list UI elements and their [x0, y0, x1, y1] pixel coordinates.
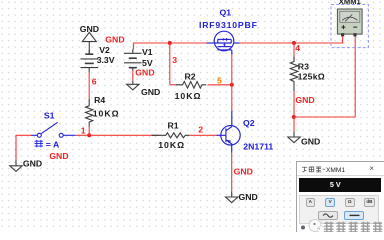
svg-text:XMM1: XMM1 [339, 0, 362, 6]
svg-text:GND: GND [49, 151, 68, 161]
svg-text:Q2: Q2 [243, 118, 255, 128]
wire: R2 right to node5 [208, 84, 232, 86]
svg-text:6: 6 [92, 76, 97, 86]
wire: R4 bottom to node1 [88, 127, 90, 136]
svg-text:10KΩ: 10KΩ [175, 91, 202, 101]
svg-text:5: 5 [217, 75, 222, 85]
svg-text:GND: GND [105, 34, 124, 44]
svg-text:V2: V2 [99, 45, 110, 55]
wire: R3 bottom to gnd junction [293, 91, 295, 117]
svg-text:125kΩ: 125kΩ [298, 72, 325, 82]
button DC selected [344, 211, 364, 220]
svg-text:1: 1 [81, 125, 86, 135]
wire: V1 bottom to ground red part [132, 71, 134, 81]
svg-text:V1: V1 [142, 47, 153, 57]
svg-text:GND: GND [234, 167, 253, 177]
wire: top rail from Q1 right to XMM1 plus [240, 42, 343, 44]
display [299, 178, 382, 192]
svg-text:R4: R4 [94, 95, 105, 105]
instrument XMM1 icon [331, 5, 368, 48]
mosfet Q1 [207, 31, 240, 54]
battery V1 [124, 49, 142, 70]
title bar [297, 162, 384, 176]
multimeter panel window XMM1 [296, 161, 384, 236]
wire: gnd junction to R3 ground [293, 117, 295, 132]
ground (V1) [127, 81, 139, 90]
wire: Q1 gate down to node5 [231, 55, 233, 85]
button AC [318, 211, 337, 220]
wire: top rail from V1 to Q1 left [134, 42, 207, 44]
svg-text:5V: 5V [142, 58, 153, 68]
watermark [293, 216, 384, 232]
svg-text:GND: GND [23, 158, 42, 168]
resistor R1 [152, 133, 190, 138]
svg-text:10KΩ: 10KΩ [158, 140, 185, 150]
label key = A (CJK glyph approximated) [35, 140, 43, 148]
ground (Q2) [226, 191, 238, 202]
svg-text:2N1711: 2N1711 [243, 142, 273, 152]
svg-text:2: 2 [198, 125, 203, 135]
button A [306, 198, 315, 206]
button dB [364, 198, 375, 206]
wire: node3 vertical [169, 43, 171, 85]
svg-text:R2: R2 [185, 71, 196, 81]
node 5 junction dot [230, 83, 234, 87]
wire: node1 to R1 left [89, 134, 159, 136]
resistor R3 [290, 57, 298, 92]
button V selected [325, 198, 335, 206]
svg-text:10KΩ: 10KΩ [93, 109, 120, 119]
resistor R4 [86, 99, 93, 127]
wire: V2 bottom to R4 top [88, 73, 90, 100]
ground (R3) [288, 132, 300, 143]
wire: XMM1 minus vertical [354, 36, 356, 117]
svg-text:4: 4 [295, 43, 300, 53]
wire: S1 right to node1 [75, 134, 89, 136]
node 1 junction dot [87, 133, 91, 137]
svg-text:Q1: Q1 [220, 7, 232, 17]
resistor R2 [176, 82, 206, 89]
wire: R1 right to Q2 base [189, 134, 216, 136]
svg-text:IRF9310PBF: IRF9310PBF [199, 20, 258, 30]
svg-text:S1: S1 [44, 110, 55, 120]
svg-text:GND: GND [135, 68, 154, 78]
svg-text:GND: GND [239, 192, 258, 202]
on-page connector arrow GND above V2 [82, 32, 96, 54]
wire: Q2 emitter down [231, 153, 233, 192]
battery V2 [81, 50, 99, 73]
svg-text:= A: = A [46, 140, 60, 150]
node 3 junction dot [168, 41, 172, 45]
svg-text:3: 3 [172, 55, 177, 65]
svg-text:GND: GND [141, 87, 160, 97]
svg-text:GND: GND [301, 137, 320, 147]
svg-text:XMM1: XMM1 [326, 166, 345, 173]
button area [299, 195, 380, 224]
gnd junction dot right [292, 115, 296, 119]
wire: gnd junction to XMM1 minus horizontal [294, 116, 355, 118]
ground (S1) [10, 160, 22, 172]
wire: node5 down to Q2 collector [231, 85, 233, 111]
node 4 junction dot [292, 41, 296, 45]
wire: node4 down to R3 top [293, 43, 295, 61]
svg-text:R3: R3 [298, 61, 309, 71]
wire: V1 red drop above battery [133, 43, 135, 49]
switch S1 [31, 122, 75, 137]
button ohm [345, 198, 355, 206]
wire: node3 corner to R2 left [170, 84, 178, 86]
svg-text:GND: GND [295, 95, 314, 105]
wire: V1 top drop [133, 43, 135, 50]
svg-text:R1: R1 [168, 120, 179, 130]
svg-text:3.3V: 3.3V [97, 55, 115, 65]
wire: XMM1 plus drop [342, 36, 344, 44]
svg-text:GND: GND [80, 24, 99, 34]
wire: S1 left drop [16, 135, 31, 159]
transistor Q2 [217, 111, 241, 153]
